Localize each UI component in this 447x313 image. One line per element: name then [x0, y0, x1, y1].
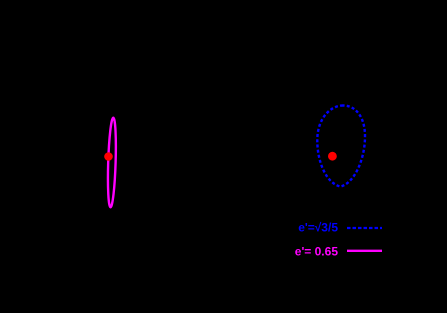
svg-text:e'=√3/5: e'=√3/5 — [298, 220, 338, 234]
svg-text:e'= 0.65: e'= 0.65 — [295, 244, 339, 258]
